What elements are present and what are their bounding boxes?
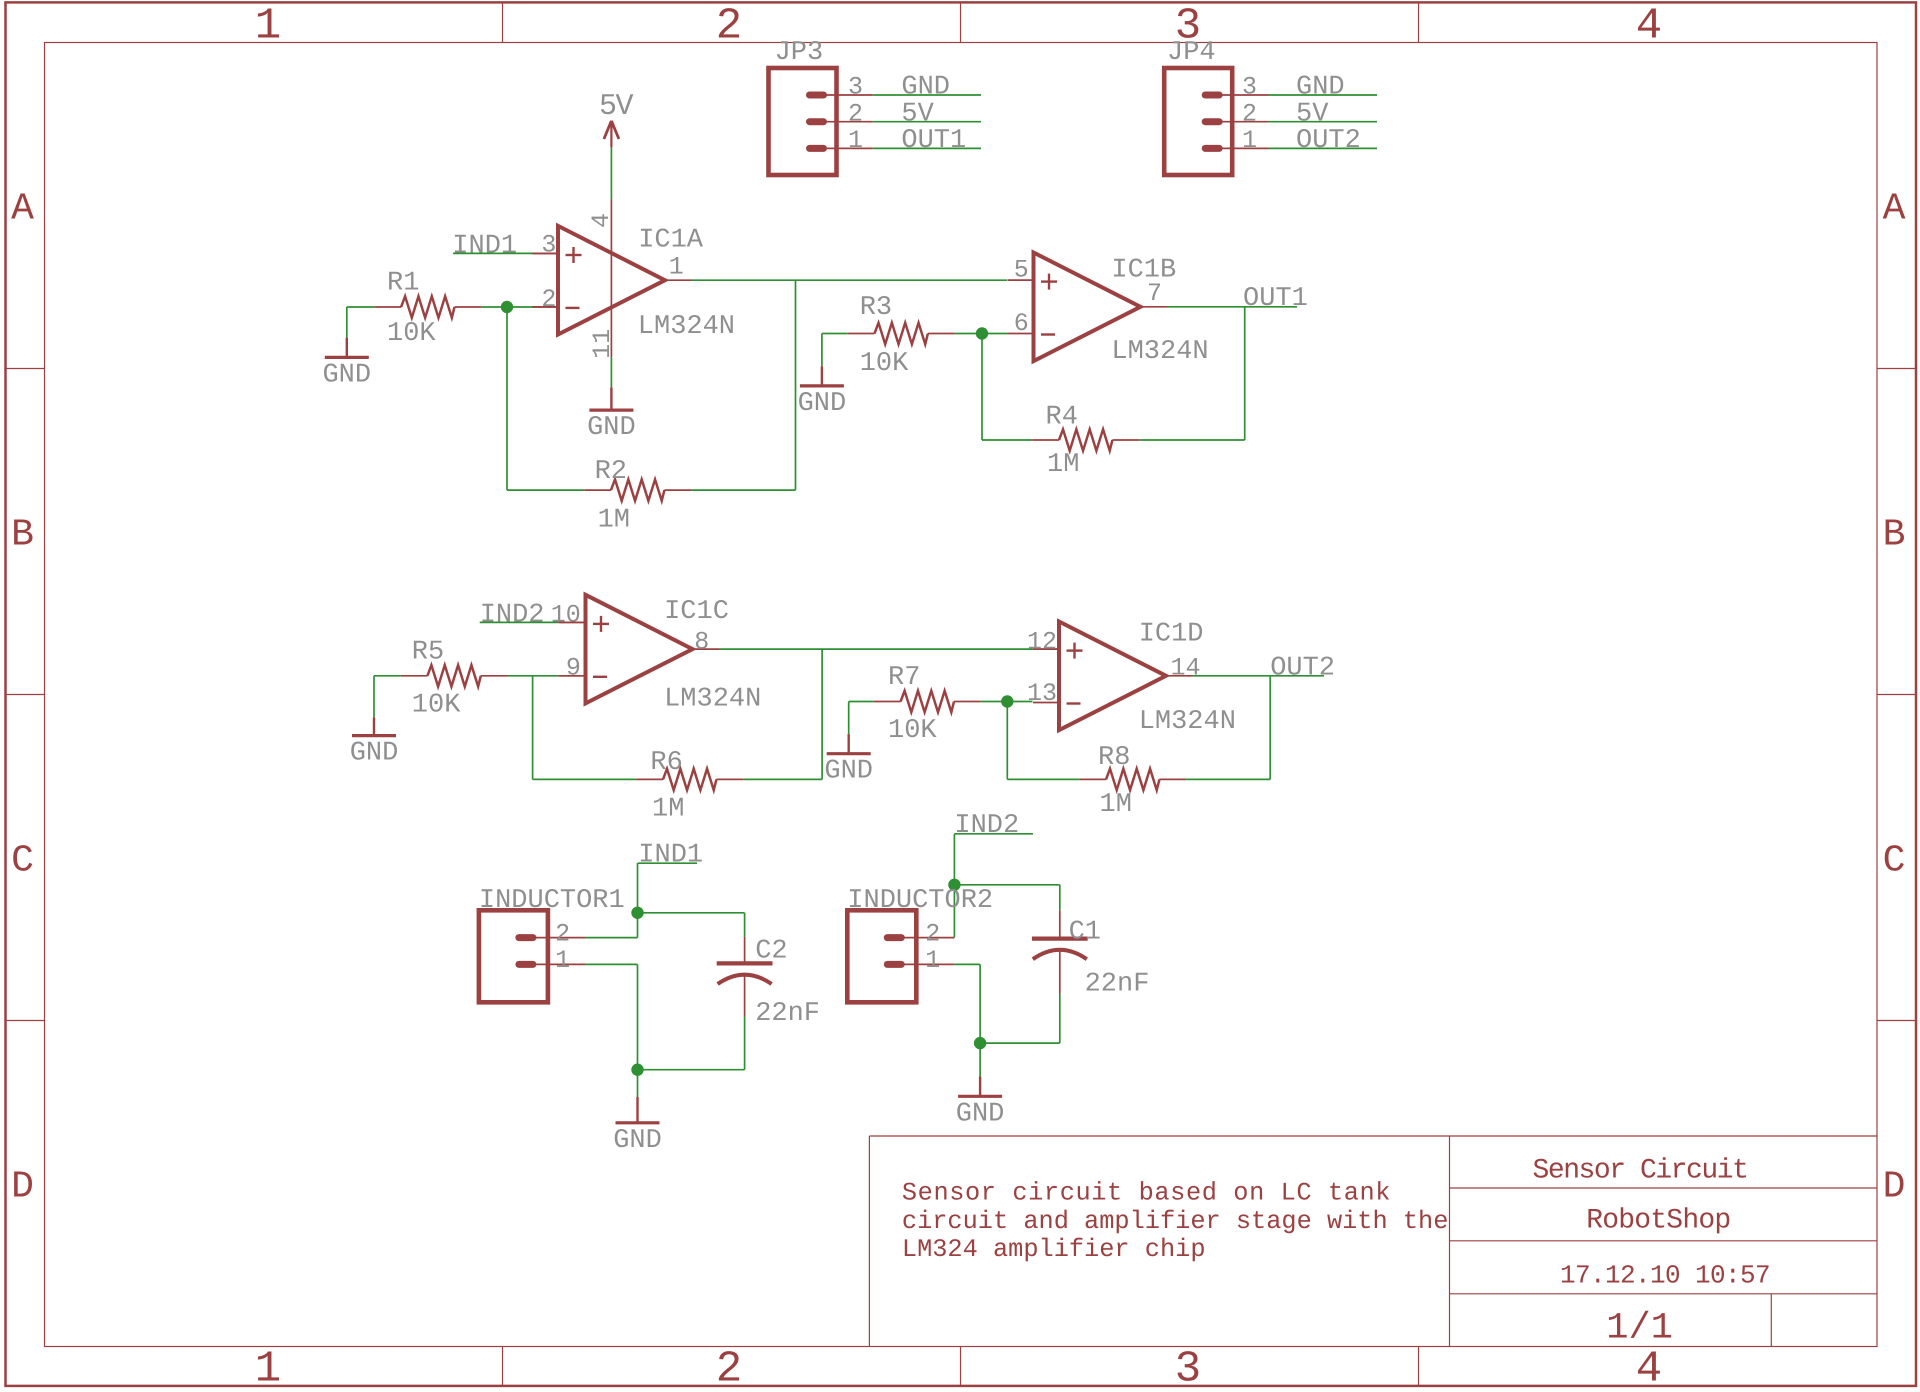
svg-text:GND: GND: [798, 389, 847, 419]
svg-text:1M: 1M: [598, 505, 630, 535]
svg-text:1M: 1M: [652, 795, 684, 825]
svg-text:22nF: 22nF: [755, 999, 820, 1029]
svg-text:IND1: IND1: [452, 231, 517, 261]
svg-text:1M: 1M: [1047, 450, 1079, 480]
svg-text:4: 4: [1636, 2, 1662, 52]
svg-text:GND: GND: [824, 757, 873, 787]
svg-text:5V: 5V: [1296, 99, 1329, 129]
svg-text:LM324N: LM324N: [664, 684, 761, 714]
svg-text:D: D: [1883, 1166, 1906, 1209]
svg-text:A: A: [11, 188, 34, 231]
svg-text:1: 1: [925, 946, 940, 975]
svg-text:10K: 10K: [860, 349, 909, 379]
svg-text:1: 1: [669, 252, 684, 281]
svg-text:A: A: [1883, 188, 1906, 231]
svg-text:2: 2: [541, 285, 556, 314]
svg-text:6: 6: [1014, 309, 1029, 338]
svg-text:1: 1: [1242, 126, 1257, 155]
svg-text:4: 4: [1636, 1345, 1662, 1392]
svg-text:22nF: 22nF: [1085, 970, 1150, 1000]
svg-text:2: 2: [925, 920, 940, 949]
svg-text:10: 10: [551, 600, 581, 629]
svg-text:OUT1: OUT1: [1243, 284, 1308, 314]
svg-text:14: 14: [1171, 653, 1201, 682]
svg-text:11: 11: [588, 329, 617, 359]
svg-text:RobotShop: RobotShop: [1586, 1206, 1730, 1237]
svg-text:1M: 1M: [1100, 790, 1132, 820]
svg-text:LM324N: LM324N: [1111, 337, 1208, 367]
svg-text:B: B: [11, 514, 34, 557]
svg-text:GND: GND: [956, 1099, 1005, 1129]
svg-text:2: 2: [1242, 99, 1257, 128]
svg-text:1/1: 1/1: [1606, 1308, 1673, 1350]
svg-text:GND: GND: [901, 73, 950, 103]
svg-text:C1: C1: [1069, 918, 1101, 948]
svg-text:IC1D: IC1D: [1139, 619, 1204, 649]
svg-text:JP4: JP4: [1167, 38, 1216, 68]
svg-text:GND: GND: [350, 739, 399, 769]
svg-text:2: 2: [848, 99, 863, 128]
svg-text:9: 9: [566, 653, 581, 682]
svg-text:R7: R7: [888, 663, 920, 693]
svg-text:LM324 amplifier chip: LM324 amplifier chip: [902, 1235, 1206, 1264]
svg-text:3: 3: [541, 230, 556, 259]
svg-text:C2: C2: [755, 937, 787, 967]
svg-text:17.12.10 10:57: 17.12.10 10:57: [1560, 1261, 1770, 1291]
svg-text:R2: R2: [595, 457, 627, 487]
svg-text:LM324N: LM324N: [1139, 707, 1236, 737]
svg-text:10K: 10K: [412, 690, 461, 720]
svg-text:IC1A: IC1A: [638, 226, 704, 256]
svg-text:13: 13: [1027, 679, 1057, 708]
svg-text:JP3: JP3: [775, 38, 824, 68]
svg-text:R4: R4: [1046, 403, 1078, 433]
svg-text:5V: 5V: [901, 99, 934, 129]
svg-text:5V: 5V: [599, 90, 634, 124]
svg-text:D: D: [11, 1166, 34, 1209]
svg-text:3: 3: [1242, 73, 1257, 102]
svg-text:LM324N: LM324N: [638, 312, 735, 342]
svg-text:OUT2: OUT2: [1270, 653, 1335, 683]
svg-text:1: 1: [848, 126, 863, 155]
svg-text:10K: 10K: [888, 716, 937, 746]
svg-text:R5: R5: [412, 638, 444, 668]
svg-text:3: 3: [848, 73, 863, 102]
svg-text:2: 2: [555, 920, 570, 949]
svg-text:3: 3: [1175, 1345, 1201, 1392]
svg-text:R6: R6: [650, 748, 682, 778]
svg-text:GND: GND: [322, 360, 371, 390]
svg-text:2: 2: [716, 2, 742, 52]
svg-text:1: 1: [555, 946, 570, 975]
svg-text:R1: R1: [387, 269, 419, 299]
svg-text:C: C: [11, 840, 34, 883]
svg-text:circuit and amplifier stage wi: circuit and amplifier stage with the: [902, 1207, 1449, 1236]
svg-text:5: 5: [1014, 255, 1029, 284]
svg-text:GND: GND: [613, 1126, 662, 1156]
svg-text:8: 8: [694, 627, 709, 656]
svg-text:B: B: [1883, 514, 1906, 557]
svg-text:IND2: IND2: [954, 811, 1019, 841]
svg-text:12: 12: [1027, 627, 1057, 656]
svg-text:OUT2: OUT2: [1296, 126, 1361, 156]
svg-text:1: 1: [255, 1345, 281, 1392]
svg-text:GND: GND: [1296, 73, 1345, 103]
svg-text:IC1C: IC1C: [664, 597, 729, 627]
svg-text:Sensor Circuit: Sensor Circuit: [1533, 1156, 1748, 1187]
svg-text:2: 2: [716, 1345, 742, 1392]
svg-text:1: 1: [255, 2, 281, 52]
svg-text:OUT1: OUT1: [901, 126, 966, 156]
svg-text:IND1: IND1: [638, 841, 703, 871]
svg-text:C: C: [1883, 840, 1906, 883]
svg-text:10K: 10K: [387, 319, 436, 349]
svg-text:Sensor circuit based on LC tan: Sensor circuit based on LC tank: [902, 1179, 1391, 1208]
svg-text:IC1B: IC1B: [1111, 255, 1176, 285]
svg-text:R8: R8: [1098, 743, 1130, 773]
svg-text:R3: R3: [860, 293, 892, 323]
svg-text:IND2: IND2: [480, 600, 545, 630]
svg-text:GND: GND: [587, 413, 636, 443]
